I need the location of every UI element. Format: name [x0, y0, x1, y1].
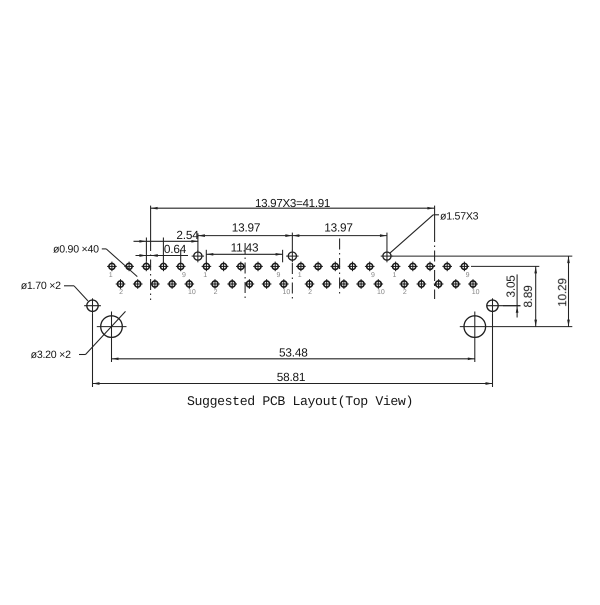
dimension 8.89: [521, 266, 537, 326]
pin hole group3 pin 5 (Ø0.90): [331, 262, 341, 272]
centerline group3: [339, 239, 341, 297]
hole Ø3.20 right: [460, 312, 573, 343]
dimension 53.48: [112, 345, 475, 360]
extension line big-hole row to right: [392, 255, 573, 257]
pin hole group3 pin 4 (Ø0.90): [322, 279, 332, 289]
dimension 13.97X3=41.91: [151, 197, 435, 210]
index hole H2 (Ø1.57): [286, 250, 298, 262]
pin hole group4 pin 10 (Ø0.90): [468, 279, 478, 289]
dimension 58.81: [93, 370, 493, 385]
label Ø0.90 ×40 with leader: [53, 243, 137, 276]
pin hole group4 pin 3 (Ø0.90): [408, 262, 418, 272]
pin hole group1 pin 7 (Ø0.90): [159, 262, 169, 272]
pin hole group1 pin 4 (Ø0.90): [133, 279, 143, 289]
pin hole group4 pin 1 (Ø0.90): [391, 262, 401, 272]
extension line hole 3.20 right down: [474, 342, 476, 362]
dimension 2.54: [134, 228, 200, 243]
pin hole group1 pin 6 (Ø0.90): [150, 279, 160, 289]
extension line hole 1.70 right: [503, 305, 521, 307]
dimension 0.64: [136, 238, 189, 265]
svg-text:10.29: 10.29: [555, 278, 569, 307]
pin hole group4 pin 7 (Ø0.90): [442, 262, 452, 272]
pin hole group3 pin 8 (Ø0.90): [356, 279, 366, 289]
pin number labels group2: [203, 272, 290, 296]
pin hole group1 pin 1 (Ø0.90): [107, 262, 117, 272]
dimension 13.97 (H2-H3): [292, 221, 387, 251]
svg-text:2: 2: [403, 289, 407, 296]
pin hole group3 pin 3 (Ø0.90): [313, 262, 323, 272]
pin hole group1 pin 9 (Ø0.90): [176, 262, 186, 272]
label Ø3.20 ×2 with leader: [31, 311, 126, 361]
pin hole group2 pin 5 (Ø0.90): [236, 262, 246, 272]
svg-text:10: 10: [377, 289, 385, 296]
extension line hole 3.20 left down: [111, 342, 113, 362]
svg-text:2.54: 2.54: [176, 228, 199, 242]
hole Ø1.70 right: [486, 298, 520, 313]
pin hole group2 pin 2 (Ø0.90): [210, 279, 220, 289]
pin hole group1 pin 2 (Ø0.90): [116, 279, 126, 289]
svg-text:11.43: 11.43: [231, 241, 259, 255]
pin number labels group4: [392, 272, 479, 296]
pin hole group1 pin 10 (Ø0.90): [185, 279, 195, 289]
svg-text:2: 2: [308, 289, 312, 296]
svg-text:13.97: 13.97: [324, 221, 353, 235]
svg-text:1: 1: [298, 272, 302, 279]
svg-text:10: 10: [283, 289, 291, 296]
pin hole group3 pin 9 (Ø0.90): [365, 262, 375, 272]
svg-text:3.05: 3.05: [504, 275, 518, 298]
svg-text:13.97: 13.97: [232, 221, 261, 235]
dimension 11.43: [206, 241, 282, 263]
svg-text:1: 1: [109, 272, 113, 279]
pin hole group4 pin 9 (Ø0.90): [460, 262, 470, 272]
pin hole group4 pin 8 (Ø0.90): [451, 279, 461, 289]
centerline middle: [291, 263, 293, 300]
hole Ø3.20 left: [97, 312, 127, 343]
index hole H3 (Ø1.57): [381, 250, 393, 262]
pin hole group4 pin 4 (Ø0.90): [417, 279, 427, 289]
pin hole group1 pin 5 (Ø0.90): [142, 262, 152, 272]
svg-text:ø0.90 ×40: ø0.90 ×40: [53, 243, 99, 255]
dimension 13.97 (H1-H2): [198, 221, 292, 252]
centerline group2: [244, 243, 246, 300]
pin hole group3 pin 7 (Ø0.90): [348, 262, 358, 272]
svg-text:10: 10: [472, 289, 480, 296]
centerline group1: [150, 206, 152, 240]
dimension 10.29: [555, 256, 570, 327]
pin hole group2 pin 10 (Ø0.90): [279, 279, 289, 289]
pin hole group3 pin 6 (Ø0.90): [339, 279, 349, 289]
pin hole group3 pin 2 (Ø0.90): [305, 279, 315, 289]
pin number labels group3: [298, 272, 385, 296]
svg-text:9: 9: [276, 272, 280, 279]
svg-text:53.48: 53.48: [279, 345, 308, 359]
pin hole group4 pin 5 (Ø0.90): [425, 262, 435, 272]
extension line hole 1.70 left down: [92, 313, 94, 387]
svg-text:1: 1: [392, 272, 396, 279]
svg-text:Suggested PCB Layout(Top View): Suggested PCB Layout(Top View): [187, 394, 413, 409]
pin hole group2 pin 3 (Ø0.90): [219, 262, 229, 272]
label Ø1.57X3 with leader: [390, 210, 479, 253]
pin hole group4 pin 6 (Ø0.90): [434, 279, 444, 289]
svg-text:ø3.20 ×2: ø3.20 ×2: [31, 349, 71, 361]
extension line hole 1.70 right down: [492, 313, 494, 387]
svg-text:ø1.70 ×2: ø1.70 ×2: [21, 280, 61, 292]
pin hole group3 pin 10 (Ø0.90): [374, 279, 384, 289]
svg-text:9: 9: [371, 272, 375, 279]
svg-text:2: 2: [119, 289, 123, 296]
pin hole group3 pin 1 (Ø0.90): [296, 262, 306, 272]
pin hole group2 pin 8 (Ø0.90): [262, 279, 272, 289]
svg-text:9: 9: [182, 272, 186, 279]
pin hole group4 pin 2 (Ø0.90): [399, 279, 409, 289]
pin hole group2 pin 7 (Ø0.90): [253, 262, 263, 272]
pin hole group2 pin 4 (Ø0.90): [227, 279, 237, 289]
hole Ø1.70 left: [84, 298, 101, 313]
pin hole group1 pin 8 (Ø0.90): [167, 279, 177, 289]
svg-text:0.64: 0.64: [164, 242, 187, 256]
svg-text:13.97X3=41.91: 13.97X3=41.91: [255, 197, 330, 210]
extension line pin9 row to right: [471, 265, 539, 267]
pin hole group1 pin 3 (Ø0.90): [124, 262, 134, 272]
pin hole group2 pin 9 (Ø0.90): [270, 262, 280, 272]
svg-text:2: 2: [214, 289, 218, 296]
index hole H1 (Ø1.57): [192, 250, 204, 262]
svg-text:1: 1: [203, 272, 207, 279]
dimension 3.05: [504, 274, 519, 317]
svg-text:10: 10: [188, 289, 196, 296]
svg-text:58.81: 58.81: [277, 370, 306, 384]
centerline group4: [434, 206, 436, 231]
pin number labels group1: [109, 272, 196, 296]
svg-text:ø1.57X3: ø1.57X3: [440, 210, 479, 222]
svg-text:9: 9: [466, 272, 470, 279]
label Ø1.70 ×2 with leader: [21, 280, 88, 301]
pin hole group2 pin 6 (Ø0.90): [245, 279, 255, 289]
pin hole group2 pin 1 (Ø0.90): [202, 262, 212, 272]
svg-text:8.89: 8.89: [521, 285, 535, 307]
